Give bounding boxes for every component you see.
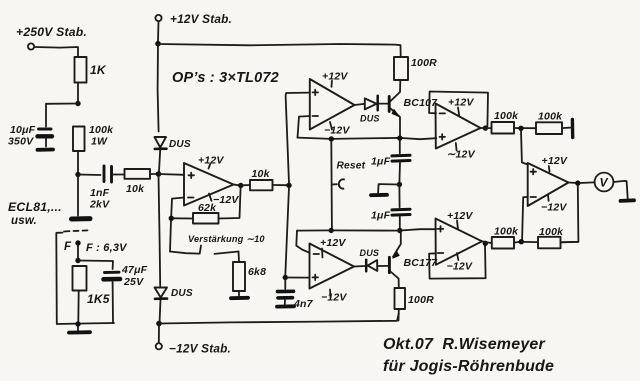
wire meter to ground xyxy=(613,181,627,198)
diode D1 DUS xyxy=(155,137,191,172)
ground under R7 xyxy=(231,291,248,298)
wire node N to R11 xyxy=(523,127,536,129)
capacitor C1 10uF 350V xyxy=(8,124,52,148)
node U1 output junction xyxy=(238,183,243,188)
svg-text:F: F xyxy=(64,241,72,253)
U5 +12V supply pin xyxy=(542,155,568,172)
wire node H to R6 xyxy=(174,217,194,219)
svg-text:1W: 1W xyxy=(91,136,108,148)
U3 -12V supply pin xyxy=(321,290,347,304)
ground under heater box xyxy=(69,326,90,333)
svg-text:6k8: 6k8 xyxy=(248,266,266,278)
wire R12 to node P xyxy=(514,241,519,244)
node K junction xyxy=(397,228,402,233)
node L junction reset top xyxy=(329,136,334,141)
svg-text:100k: 100k xyxy=(494,110,519,122)
node U5 output junction xyxy=(575,180,580,185)
wire switch to R7 xyxy=(238,252,241,263)
meter M1 voltmeter xyxy=(595,173,614,192)
wire U3 output to D4 xyxy=(354,265,365,268)
U3 +12V supply pin xyxy=(320,237,346,258)
svg-text:DUS: DUS xyxy=(360,114,380,124)
node N junction xyxy=(518,126,523,131)
wire node F1 to U1 plus xyxy=(159,173,185,176)
capacitor C2 47uF 25V xyxy=(104,264,148,288)
node mid-cap junction xyxy=(397,182,402,187)
capacitor C6 4n7 xyxy=(278,280,314,311)
svg-text:usw.: usw. xyxy=(11,215,37,227)
terminal F (heater) xyxy=(64,240,128,254)
svg-text:+250V Stab.: +250V Stab. xyxy=(16,25,87,39)
wire C2 to box bottom xyxy=(112,282,114,323)
svg-text:+12V: +12V xyxy=(198,155,224,167)
svg-text:−12V: −12V xyxy=(213,194,239,206)
-12V rail horizontal xyxy=(159,314,399,324)
svg-text:1μF: 1μF xyxy=(371,156,391,168)
svg-text:350V: 350V xyxy=(8,136,34,148)
wire U5 inverting input down to node P xyxy=(522,197,528,239)
tube heater dashed line xyxy=(64,230,88,231)
svg-text:BC107: BC107 xyxy=(404,97,439,109)
node M junction reset bottom xyxy=(329,228,334,233)
wire reset vertical xyxy=(330,141,333,229)
node E junction xyxy=(75,321,80,326)
svg-text:+12V Stab.: +12V Stab. xyxy=(170,12,232,26)
svg-text:1nF: 1nF xyxy=(90,187,110,199)
svg-text:∼12V: ∼12V xyxy=(447,149,476,161)
resistor R5 10k xyxy=(250,168,273,190)
capacitor C4 1uF upper xyxy=(371,140,410,183)
wire R1 to node B xyxy=(77,83,79,102)
svg-text:Verstärkung ∼10: Verstärkung ∼10 xyxy=(188,234,265,244)
ground at meter xyxy=(621,198,635,202)
wire C3 to R4 xyxy=(113,174,125,176)
op-amp U6 xyxy=(436,219,483,265)
svg-text:−12V Stab.: −12V Stab. xyxy=(169,342,231,356)
U2 +12V supply pin xyxy=(322,71,348,87)
resistor R10 100k xyxy=(492,110,520,134)
wire feedback row y138 xyxy=(298,138,437,140)
svg-text:BC177: BC177 xyxy=(404,257,439,269)
wire R10 to node N xyxy=(514,127,519,129)
wire U4 output xyxy=(481,127,492,129)
wire R11 to terminal bar xyxy=(562,127,570,130)
svg-text:10k: 10k xyxy=(252,168,271,180)
U2 -12V supply pin xyxy=(324,122,350,137)
terminal -12V xyxy=(156,326,231,356)
resistor R3 1K5 xyxy=(73,266,110,306)
wire R4 to node F1 xyxy=(150,173,156,175)
svg-text:V: V xyxy=(600,176,609,190)
node J junction emitter xyxy=(397,135,402,140)
resistor R13 100k xyxy=(538,226,564,249)
resistor R1 1K xyxy=(75,57,107,83)
wire U4 feedback loop xyxy=(429,92,488,127)
svg-text:ECL81,...: ECL81,... xyxy=(8,200,62,214)
node F1 junction (clamp node) xyxy=(156,171,162,177)
+12V rail vertical to D1 xyxy=(158,44,159,132)
wire U1 inverting input to node H xyxy=(171,198,184,217)
wire feedback row y230 xyxy=(297,229,436,230)
wire node A down to node I xyxy=(285,187,289,276)
wire node A up to U2 non-inverting input xyxy=(286,93,310,184)
ground under C6 xyxy=(277,304,294,308)
terminal +12V xyxy=(155,12,232,26)
node H junction xyxy=(169,216,174,221)
resistor R12 100k xyxy=(492,226,519,249)
svg-text:100k: 100k xyxy=(539,226,564,238)
op-amp U2 xyxy=(310,79,355,130)
wire U3 inverting input feedback bend xyxy=(296,231,309,253)
wire U5 output xyxy=(569,182,576,184)
wire U5 feedback down xyxy=(562,185,578,242)
U4 -12V supply pin xyxy=(447,143,476,161)
op-amp U3 xyxy=(310,244,355,289)
svg-text:100R: 100R xyxy=(411,57,437,69)
+12V rail horizontal xyxy=(158,44,401,57)
svg-text:1K: 1K xyxy=(90,63,107,77)
wire node F1 down to D2 xyxy=(159,176,161,286)
node P junction xyxy=(519,239,524,244)
wire U6 feedback loop xyxy=(429,245,486,278)
wire R2 to node C xyxy=(77,151,79,172)
U1 -12V supply pin xyxy=(209,194,239,207)
svg-text:−12V: −12V xyxy=(324,125,350,137)
resistor R9 100R xyxy=(395,288,435,309)
svg-text:Okt.07 R.Wisemeyer: Okt.07 R.Wisemeyer xyxy=(383,336,546,353)
svg-text:100R: 100R xyxy=(408,294,434,306)
wire F to node D xyxy=(77,245,79,258)
svg-text:DUS: DUS xyxy=(171,288,193,299)
node I junction xyxy=(283,275,288,280)
svg-text:4n7: 4n7 xyxy=(293,298,314,310)
node +12V rail junction xyxy=(155,41,161,47)
svg-text:62k: 62k xyxy=(198,202,217,214)
wire node D to capacitor branch xyxy=(78,261,113,270)
svg-text:DUS: DUS xyxy=(169,139,191,150)
wire U6 output xyxy=(482,241,492,243)
switch SW1 gain select xyxy=(170,246,239,254)
wire R9 to -12V rail xyxy=(398,309,400,321)
op-amp U1 xyxy=(184,163,234,206)
diode D2 DUS xyxy=(155,288,193,322)
svg-text:−12V: −12V xyxy=(321,292,347,304)
resistor R8 100R xyxy=(394,57,437,80)
node G junction -12V rail xyxy=(156,321,162,327)
svg-text:−12V: −12V xyxy=(541,202,567,214)
wire U2 inverting input feedback bend xyxy=(298,116,310,138)
wire U2 output to D3 xyxy=(355,104,365,105)
wire R13 to U5 feedback xyxy=(561,241,579,244)
diode D4 DUS xyxy=(360,248,389,271)
U4 +12V supply pin xyxy=(448,97,474,116)
svg-text:100k: 100k xyxy=(89,124,114,136)
U6 -12V supply pin xyxy=(447,253,473,273)
node C junction xyxy=(75,172,80,177)
wire node H down to switch xyxy=(170,221,171,252)
svg-text:25V: 25V xyxy=(123,276,144,288)
wire R5 to node A xyxy=(273,184,288,186)
terminal bar after R11 xyxy=(571,120,575,138)
wire to meter xyxy=(580,181,594,184)
wire node I to U3 non-inverting input xyxy=(287,277,310,279)
heater box left/bottom wire xyxy=(56,233,114,324)
node U6 output junction xyxy=(483,241,488,246)
U6 +12V supply pin xyxy=(447,210,473,230)
resistor R4 10k input xyxy=(125,169,151,195)
tube anode connection bar (ECL81) xyxy=(72,216,91,221)
node U4 output junction xyxy=(483,125,488,130)
wire node P to R13 xyxy=(523,241,538,243)
wire R6 to U1 output node xyxy=(219,188,241,219)
resistor R11 100k xyxy=(536,111,563,135)
op-amp U5 xyxy=(528,163,569,206)
svg-text:10k: 10k xyxy=(126,183,145,195)
svg-text:100k: 100k xyxy=(538,111,563,123)
wire +12V terminal down xyxy=(157,21,160,41)
ground tap between caps xyxy=(371,184,399,195)
svg-text:−12V: −12V xyxy=(447,261,473,273)
U1 +12V supply pin xyxy=(198,155,224,169)
wire U1 output xyxy=(234,184,239,187)
U5 -12V supply pin xyxy=(541,195,567,214)
ground under C1 xyxy=(38,148,54,152)
transistor Q2 BC177 xyxy=(389,233,438,287)
svg-text:+12V: +12V xyxy=(320,237,346,249)
op-amp U4 xyxy=(436,104,481,149)
wire node N down to U5 non-inverting input xyxy=(521,131,527,165)
diode D3 DUS xyxy=(360,96,388,124)
node D junction xyxy=(75,258,80,263)
transistor Q1 BC107 xyxy=(389,81,438,137)
svg-text:+12V: +12V xyxy=(447,210,473,222)
wire +250V terminal to R1 xyxy=(35,47,79,57)
terminal +250V input xyxy=(16,25,87,50)
node B junction xyxy=(75,101,80,106)
wire node C down to tube connection xyxy=(77,176,79,216)
svg-text:OP’s : 3×TL072: OP’s : 3×TL072 xyxy=(172,70,279,86)
svg-text:100k: 100k xyxy=(494,226,519,238)
svg-text:10μF: 10μF xyxy=(10,124,36,136)
capacitor C5 1uF lower xyxy=(371,187,410,229)
svg-text:1K5: 1K5 xyxy=(87,292,110,306)
svg-text:2kV: 2kV xyxy=(89,199,110,211)
svg-text:+12V: +12V xyxy=(542,155,568,167)
resistor R7 6k8 xyxy=(233,262,266,291)
wire node C to C3 xyxy=(78,174,101,177)
svg-text:+12V: +12V xyxy=(448,97,474,109)
svg-text:für Jogis-Röhrenbude: für Jogis-Röhrenbude xyxy=(383,358,554,375)
svg-text:Reset: Reset xyxy=(337,161,366,172)
svg-text:1μF: 1μF xyxy=(371,210,391,222)
svg-text:DUS: DUS xyxy=(360,248,380,258)
wire node B to capacitor C1 xyxy=(46,104,78,127)
resistor R2 100k 1W xyxy=(73,124,114,151)
text ECL81 xyxy=(8,200,62,227)
wire to R5 xyxy=(242,184,250,186)
switch SW2 reset contact xyxy=(332,179,345,188)
resistor R6 62k feedback xyxy=(193,202,219,224)
wire R3 to node E xyxy=(77,291,79,323)
svg-text:+12V: +12V xyxy=(322,71,348,83)
node A junction xyxy=(286,183,291,188)
capacitor C3 1nF 2kV xyxy=(89,166,112,211)
svg-text:F : 6,3V: F : 6,3V xyxy=(86,242,128,254)
svg-text:47μF: 47μF xyxy=(121,264,148,276)
